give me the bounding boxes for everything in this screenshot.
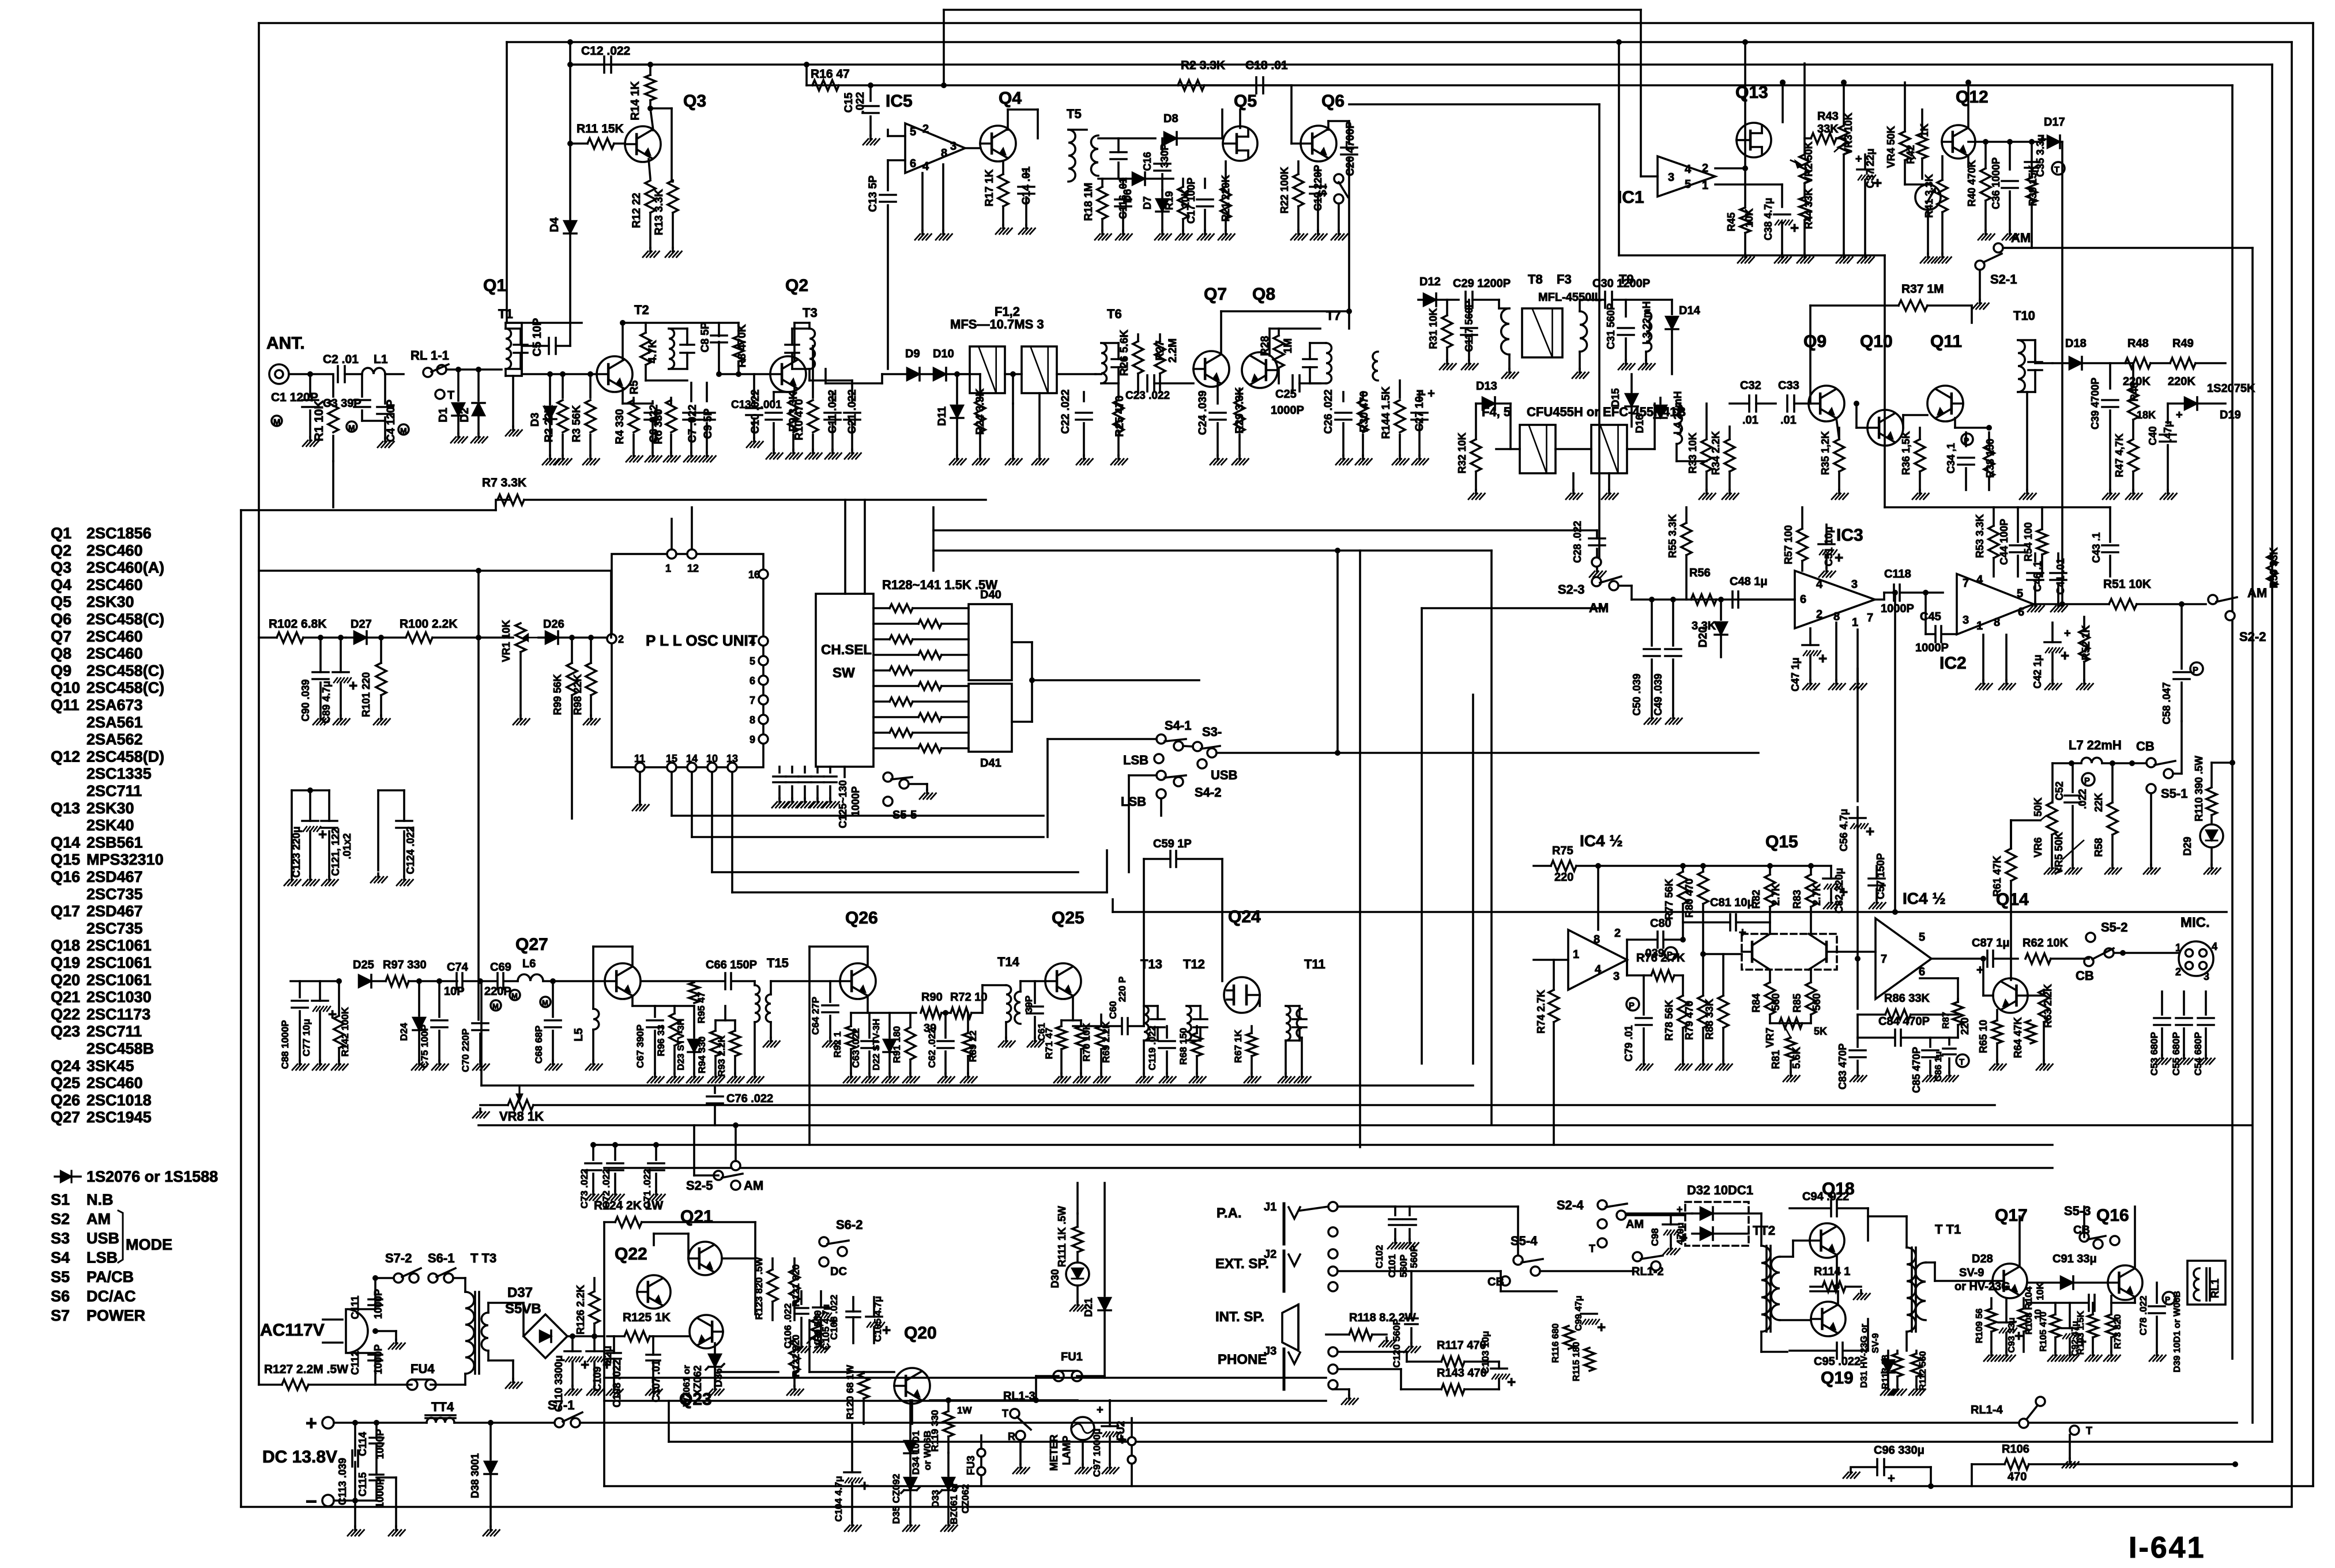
wire IC5 inputs xyxy=(888,135,905,137)
svg-text:D33: D33 xyxy=(930,1490,941,1507)
svg-text:D37: D37 xyxy=(507,1285,533,1301)
wire D32 input xyxy=(1626,1214,1685,1216)
svg-text:6: 6 xyxy=(2018,606,2024,619)
svg-text:D10: D10 xyxy=(933,348,954,360)
svg-text:14: 14 xyxy=(686,753,698,764)
wire tx row feed xyxy=(291,980,339,982)
svg-text:S5-4: S5-4 xyxy=(1511,1234,1538,1248)
svg-text:M: M xyxy=(400,426,407,435)
resistor R32 10K xyxy=(1471,439,1481,472)
svg-text:D27: D27 xyxy=(351,618,372,631)
svg-text:C7 .022: C7 .022 xyxy=(687,405,699,443)
capacitor C108 .022 xyxy=(607,1352,621,1354)
svg-text:2SC458(C): 2SC458(C) xyxy=(86,662,164,679)
wire Q26 collector xyxy=(867,947,869,967)
svg-text:RL1: RL1 xyxy=(2209,1279,2221,1298)
svg-text:DC 13.8V: DC 13.8V xyxy=(262,1448,337,1467)
inductor L5 xyxy=(592,947,594,1009)
svg-text:R54 100: R54 100 xyxy=(2023,522,2034,561)
svg-text:C94 .022: C94 .022 xyxy=(1802,1190,1849,1203)
svg-text:C98: C98 xyxy=(1649,1228,1660,1246)
svg-text:R5: R5 xyxy=(628,380,641,394)
svg-text:2SD467: 2SD467 xyxy=(86,903,143,920)
svg-text:10K: 10K xyxy=(1743,208,1755,227)
diode D33 BZ061 or CZ062 xyxy=(947,1453,950,1476)
capacitor C17 100P xyxy=(1197,198,1213,201)
svg-text:560: 560 xyxy=(1811,993,1822,1011)
svg-text:C119 .022: C119 .022 xyxy=(1147,1026,1158,1071)
wire CH.SEL feed verticals xyxy=(844,500,846,594)
capacitor C44 100P xyxy=(2017,507,2019,542)
wire Q19 emitter row xyxy=(1837,1291,1839,1305)
svg-text:M: M xyxy=(492,1002,499,1011)
svg-text:10: 10 xyxy=(706,753,718,764)
wire Q15 out to IC4b xyxy=(1837,951,1875,953)
resistor R123 820 .5W xyxy=(767,1269,778,1302)
svg-text:R112 560: R112 560 xyxy=(1918,1351,1928,1391)
svg-text:CB: CB xyxy=(2076,968,2094,983)
ground C113 xyxy=(354,1526,356,1530)
svg-text:5: 5 xyxy=(1919,931,1925,944)
svg-text:8: 8 xyxy=(1833,610,1840,623)
capacitor C106 .022 xyxy=(846,1310,860,1313)
svg-text:R18 1M: R18 1M xyxy=(1083,183,1095,221)
svg-text:Q16: Q16 xyxy=(2096,1206,2129,1225)
capacitor C51 10u xyxy=(1818,543,1835,545)
diode D21 xyxy=(1104,1183,1106,1296)
svg-text:C76 .022: C76 .022 xyxy=(726,1092,773,1105)
PLL pin 9 xyxy=(759,734,768,744)
svg-text:11: 11 xyxy=(634,753,645,764)
wire bottom bus y2501 xyxy=(669,1441,2272,1443)
resistor R64 47K xyxy=(2025,1020,2036,1043)
svg-text:D12: D12 xyxy=(1419,276,1441,288)
svg-text:R47 4,7K: R47 4,7K xyxy=(2114,434,2125,477)
resistor R46 18K xyxy=(2128,387,2138,420)
capacitor C88 1000P xyxy=(299,981,301,997)
svg-text:VR4 50K: VR4 50K xyxy=(1885,126,1897,168)
wire vertical x2466 xyxy=(1421,608,1423,1064)
svg-text:DC: DC xyxy=(830,1265,847,1278)
wire IC1 pin2 net xyxy=(1715,167,1745,169)
svg-text:SV-9: SV-9 xyxy=(1959,1267,1984,1279)
capacitor C123 220u xyxy=(292,789,329,791)
svg-text:J1: J1 xyxy=(1264,1201,1276,1213)
capacitor C28 .022 xyxy=(1589,537,1605,540)
svg-text:.01: .01 xyxy=(1780,414,1797,427)
svg-text:C18 .01: C18 .01 xyxy=(1245,59,1288,72)
PLL pin 1 xyxy=(667,549,676,559)
svg-text:1000P: 1000P xyxy=(374,1478,386,1508)
svg-text:R95 47: R95 47 xyxy=(696,992,707,1024)
svg-text:Q24: Q24 xyxy=(1228,907,1261,926)
resistor R29 3.3K xyxy=(1234,400,1245,432)
capacitor C19 220P xyxy=(1310,186,1326,188)
wire Q4 collector xyxy=(1007,110,1009,130)
svg-text:C93 33μ: C93 33μ xyxy=(2007,1317,2017,1352)
capacitor C62 .022 xyxy=(944,1013,947,1038)
svg-text:R89 22: R89 22 xyxy=(967,1031,978,1062)
svg-text:LAMP: LAMP xyxy=(1061,1436,1072,1465)
wire PLL pins top xyxy=(671,519,673,549)
PLL pin 5 xyxy=(759,656,768,665)
resistor R31 10K xyxy=(1442,315,1452,348)
wire IC4b out xyxy=(1931,958,1983,960)
svg-text:2SC711: 2SC711 xyxy=(86,1023,142,1040)
svg-text:R88 33K: R88 33K xyxy=(1704,998,1715,1039)
resistor R35 1.2K xyxy=(1834,439,1844,472)
svg-text:R33 10K: R33 10K xyxy=(1687,432,1698,473)
svg-text:C10 .022: C10 .022 xyxy=(750,389,762,434)
svg-text:2.7K: 2.7K xyxy=(1811,884,1822,906)
wire bottom bus y2430 xyxy=(604,1400,1326,1402)
svg-text:R99 56K: R99 56K xyxy=(552,674,563,715)
wire DC minus xyxy=(334,1499,376,1502)
svg-text:R77 56K: R77 56K xyxy=(1663,879,1675,919)
wire bridge out xyxy=(567,1335,604,1337)
wire PLL pin15 route xyxy=(671,772,673,816)
diode D4 xyxy=(564,221,577,233)
svg-text:+: + xyxy=(306,1412,317,1434)
wire Q13 drain to bus xyxy=(1782,82,1784,122)
diode D24 xyxy=(418,981,420,1016)
svg-text:R42: R42 xyxy=(1905,145,1916,164)
svg-text:C9 5P: C9 5P xyxy=(702,408,714,439)
svg-text:C101: C101 xyxy=(1387,1254,1398,1278)
svg-text:Q14: Q14 xyxy=(51,834,80,851)
capacitor C31 560P xyxy=(1618,327,1634,329)
capacitor C26 .022 xyxy=(1335,412,1351,414)
svg-text:R75: R75 xyxy=(1552,845,1573,857)
svg-text:4: 4 xyxy=(1685,163,1692,176)
svg-text:T T1: T T1 xyxy=(1935,1222,1961,1237)
svg-text:2SA561: 2SA561 xyxy=(86,714,143,731)
svg-text:1: 1 xyxy=(1852,616,1858,629)
svg-text:R85: R85 xyxy=(1791,993,1803,1012)
PLL pin 10 xyxy=(707,763,717,772)
svg-text:Q8: Q8 xyxy=(51,645,71,662)
svg-text:1000P: 1000P xyxy=(374,1429,386,1459)
capacitor C12 .022 xyxy=(603,56,605,73)
svg-text:LSB: LSB xyxy=(1123,753,1148,767)
capacitor C34 .1 P xyxy=(1958,457,1974,459)
diode D9 xyxy=(907,368,920,380)
svg-text:D21: D21 xyxy=(1083,1298,1094,1317)
svg-text:C1 120P: C1 120P xyxy=(271,391,318,404)
capacitor C68 68P xyxy=(552,981,554,1017)
svg-text:1: 1 xyxy=(2175,942,2181,953)
svg-text:D7: D7 xyxy=(1142,196,1153,209)
svg-text:C78 .022: C78 .022 xyxy=(2138,1296,2149,1336)
wire vertical x2555 xyxy=(1472,695,1474,1064)
svg-text:C75 100P: C75 100P xyxy=(419,1024,430,1068)
capacitor C105 4.7u xyxy=(813,1306,829,1309)
svg-text:R100 2.2K: R100 2.2K xyxy=(400,617,457,631)
svg-text:C87 1μ: C87 1μ xyxy=(1972,937,2010,949)
resistor R13 3.3K xyxy=(668,180,678,213)
svg-text:C121, 122: C121, 122 xyxy=(330,828,341,876)
svg-text:R127 2.2M .5W: R127 2.2M .5W xyxy=(264,1363,348,1376)
svg-text:2: 2 xyxy=(1702,162,1708,175)
svg-text:C33: C33 xyxy=(1778,379,1799,392)
svg-text:C86 1μ: C86 1μ xyxy=(1934,1051,1944,1081)
svg-text:S5-2: S5-2 xyxy=(2101,920,2127,934)
svg-text:R103 1.5K: R103 1.5K xyxy=(2076,1310,2086,1355)
wire LSB S4-2 down xyxy=(1160,798,1162,816)
svg-text:C69: C69 xyxy=(490,961,511,974)
diode D3 xyxy=(549,374,551,405)
svg-text:C32: C32 xyxy=(1740,379,1761,392)
wire Q20 collector xyxy=(911,1400,913,1424)
capacitors C102 C101 560P xyxy=(1338,1205,1395,1208)
resistor R93 2.2K xyxy=(730,1031,740,1056)
svg-text:R76 2.7K: R76 2.7K xyxy=(1636,952,1685,964)
wire RL1-1 to T1 xyxy=(446,368,502,371)
svg-text:R87: R87 xyxy=(1941,1012,1951,1028)
svg-text:+: + xyxy=(1790,219,1799,236)
switch S5-2 xyxy=(2086,933,2095,942)
box D41 xyxy=(969,684,1012,752)
capacitor C37 22u xyxy=(1857,168,1873,171)
capacitor C119 .022 xyxy=(1166,1026,1168,1038)
wire IC4b feedback R86 xyxy=(1856,959,1859,1009)
svg-text:R17 1K: R17 1K xyxy=(984,169,996,207)
capacitor C85 470P xyxy=(1929,1038,1931,1047)
wire PLL pin10 route xyxy=(711,772,713,872)
svg-text:Q13: Q13 xyxy=(1735,83,1768,102)
inductor L3 22mH xyxy=(1646,311,1651,352)
capacitor C39 4700P xyxy=(2102,399,2118,401)
svg-text:3: 3 xyxy=(1613,970,1620,983)
resistor R73 820 xyxy=(2106,1314,2116,1337)
svg-text:R6 330: R6 330 xyxy=(653,409,665,444)
svg-text:.022: .022 xyxy=(854,92,867,114)
wire Q2 collector to T3 xyxy=(793,323,796,360)
svg-text:AM: AM xyxy=(2011,231,2031,245)
svg-text:R32 10K: R32 10K xyxy=(1456,432,1468,473)
resistor R17 1K xyxy=(998,174,1008,206)
resistor R42 1K xyxy=(1917,133,1927,159)
svg-text:2SD467: 2SD467 xyxy=(86,868,143,885)
svg-text:2: 2 xyxy=(1614,927,1621,940)
svg-text:2SC1945: 2SC1945 xyxy=(86,1109,152,1126)
wire TT2 primary bottom xyxy=(1760,1332,1762,1352)
ground under C1 xyxy=(309,437,311,440)
wire bottom buses right xyxy=(603,1378,605,1486)
resistors R116 R115 C99 xyxy=(1564,1326,1574,1349)
capacitor C104 4.7u xyxy=(844,1471,860,1473)
resistor R1 10K xyxy=(332,374,334,397)
svg-text:Q20: Q20 xyxy=(51,971,80,989)
wire S2-3 to IC3 xyxy=(1618,585,1632,587)
capacitor C115 1000P xyxy=(370,1473,383,1476)
potentiometer VR7 5K xyxy=(1770,1022,1811,1024)
svg-text:C105 4.7μ: C105 4.7μ xyxy=(872,1296,883,1341)
svg-text:D35 CZ092: D35 CZ092 xyxy=(891,1474,902,1524)
svg-text:+: + xyxy=(882,1321,891,1339)
node LSB S4-1 xyxy=(1154,754,1163,763)
wire plug to node xyxy=(348,1308,375,1310)
svg-text:PHONE: PHONE xyxy=(1218,1352,1267,1367)
capacitor C90 .039 xyxy=(312,671,329,673)
wire CB to C58 net xyxy=(2173,772,2182,775)
svg-text:D41: D41 xyxy=(980,757,1001,770)
wire S4-1 bus right xyxy=(1335,750,1340,756)
wire T3 secondary to mixer diodes xyxy=(824,369,827,383)
svg-text:R117 470: R117 470 xyxy=(1437,1339,1486,1352)
svg-text:R27: R27 xyxy=(1154,341,1166,361)
svg-text:R43: R43 xyxy=(1817,110,1839,123)
svg-text:.01: .01 xyxy=(1742,414,1758,427)
svg-text:C108 .022: C108 .022 xyxy=(611,1359,623,1407)
resistor R96 33 xyxy=(669,1013,680,1046)
PLL pin 11 xyxy=(635,763,645,772)
svg-text:D2: D2 xyxy=(458,408,471,423)
svg-text:D16: D16 xyxy=(1634,414,1645,433)
bridge rectifier D37 xyxy=(524,1314,567,1358)
capacitor C70 220P xyxy=(472,1022,488,1024)
svg-text:1000P: 1000P xyxy=(372,1344,384,1374)
wire TT1 primary bottom xyxy=(1905,1332,1908,1351)
svg-text:AM: AM xyxy=(1626,1218,1644,1231)
svg-text:IC4 ½: IC4 ½ xyxy=(1903,889,1946,907)
svg-text:D11: D11 xyxy=(936,406,948,426)
diode D14 xyxy=(1671,300,1673,314)
svg-text:C105 4.7μ: C105 4.7μ xyxy=(820,1304,831,1350)
node T test xyxy=(435,390,445,399)
wire T10 top to D18 xyxy=(2034,343,2036,363)
resistor R12 22 xyxy=(649,159,650,179)
svg-text:15: 15 xyxy=(666,753,677,764)
wire Q1 emitter cluster xyxy=(622,389,624,404)
wire vertical x1619 xyxy=(932,507,935,571)
svg-text:2: 2 xyxy=(922,123,929,135)
wire bus C top xyxy=(570,63,2272,66)
svg-text:+: + xyxy=(1597,1318,1606,1336)
svg-text:4: 4 xyxy=(1976,574,1983,586)
svg-text:T11: T11 xyxy=(1304,957,1325,971)
svg-text:R11 15K: R11 15K xyxy=(577,122,624,135)
capacitor C78 .022 P xyxy=(2156,1283,2158,1303)
wire y1582 long xyxy=(1113,911,2227,913)
svg-text:D19: D19 xyxy=(2220,409,2241,421)
svg-text:R21 220K: R21 220K xyxy=(1220,175,1231,221)
svg-text:MIC.: MIC. xyxy=(2180,915,2210,930)
diode D8 xyxy=(1164,132,1177,145)
potentiometer VR3 10K xyxy=(1839,126,1849,154)
svg-text:R90: R90 xyxy=(921,991,943,1004)
wire bus D right drop xyxy=(2231,85,2234,1359)
wire bus B right drop xyxy=(2291,42,2293,1506)
svg-text:C58 .047: C58 .047 xyxy=(2161,682,2172,724)
svg-text:Q17: Q17 xyxy=(51,903,80,920)
svg-text:+: + xyxy=(1818,650,1827,667)
svg-text:R73 820: R73 820 xyxy=(2113,1314,2123,1350)
svg-text:Q6: Q6 xyxy=(51,610,71,628)
svg-text:C70 220P: C70 220P xyxy=(460,1028,471,1072)
wire Q1 emitter to R4/C6 xyxy=(623,402,653,405)
svg-text:7: 7 xyxy=(1867,612,1873,624)
svg-text:C53 680P: C53 680P xyxy=(2149,1032,2160,1076)
svg-text:2SC735: 2SC735 xyxy=(86,919,143,937)
node T RL1-4 xyxy=(2070,1426,2079,1435)
diode D17 xyxy=(2047,135,2060,148)
svg-text:M: M xyxy=(273,417,281,427)
svg-text:Q19: Q19 xyxy=(51,954,80,971)
svg-text:D13: D13 xyxy=(1476,380,1497,393)
svg-text:13: 13 xyxy=(726,753,738,764)
wire TT2 secondary to Q18 base xyxy=(1780,1256,1793,1258)
svg-text:8: 8 xyxy=(1994,616,2000,629)
svg-text:C124 .022: C124 .022 xyxy=(405,826,416,874)
svg-text:1000P: 1000P xyxy=(1271,404,1304,417)
svg-text:Q3: Q3 xyxy=(51,559,71,576)
svg-text:2SK40: 2SK40 xyxy=(86,817,134,834)
wire IC1 pin3 feed xyxy=(1641,175,1658,178)
svg-text:R50 33K: R50 33K xyxy=(2268,547,2280,588)
capacitor C124 .022 xyxy=(378,789,404,791)
svg-text:C63 .022: C63 .022 xyxy=(850,1028,861,1068)
svg-text:1000P: 1000P xyxy=(850,786,861,816)
svg-text:Q25: Q25 xyxy=(1052,909,1084,928)
wire T1 top to Q1 xyxy=(504,323,507,329)
svg-text:7: 7 xyxy=(1963,577,1969,590)
wire pin2 up xyxy=(610,571,612,638)
svg-text:9: 9 xyxy=(750,734,755,745)
svg-text:330P: 330P xyxy=(1159,144,1170,168)
resistor R47 4.7K xyxy=(2128,439,2138,472)
svg-text:Q10: Q10 xyxy=(51,679,80,696)
svg-text:6: 6 xyxy=(910,157,916,170)
svg-text:R56: R56 xyxy=(1689,567,1711,579)
svg-text:R57 100: R57 100 xyxy=(1783,525,1794,564)
capacitor C49 .039 xyxy=(1672,600,1674,646)
svg-text:T6: T6 xyxy=(1107,307,1122,321)
svg-text:LSB: LSB xyxy=(86,1249,118,1267)
svg-text:1000P: 1000P xyxy=(1881,602,1914,615)
svg-text:R45: R45 xyxy=(1726,212,1737,231)
wire S4-1 feed xyxy=(1048,738,1157,740)
svg-text:C45: C45 xyxy=(1920,610,1941,623)
wire IC1 pin1 net xyxy=(1715,183,1782,186)
svg-text:C44 100P: C44 100P xyxy=(1998,519,2010,565)
resistor R67 1K xyxy=(1246,1033,1257,1056)
svg-text:C4 120P: C4 120P xyxy=(385,399,397,442)
svg-text:R144 1.5K: R144 1.5K xyxy=(1380,386,1392,439)
capacitor C110 3300u xyxy=(564,1350,581,1352)
resistor R52 1K xyxy=(2079,630,2089,662)
capacitor C67 390P xyxy=(654,1006,656,1017)
resistor R4 330 xyxy=(632,398,635,404)
diode D35 CZ092 xyxy=(909,1453,912,1476)
capacitor C107 .01 xyxy=(646,1354,660,1356)
svg-text:220 P: 220 P xyxy=(1117,977,1128,1002)
svg-text:D38 3001: D38 3001 xyxy=(469,1453,481,1498)
svg-text:C66 150P: C66 150P xyxy=(706,959,757,971)
svg-text:C117 560P: C117 560P xyxy=(1463,300,1475,352)
resistor R126 2.2K xyxy=(589,1291,600,1324)
svg-text:C28 .022: C28 .022 xyxy=(1572,521,1583,563)
svg-text:CH.SEL: CH.SEL xyxy=(821,642,872,658)
svg-text:T15: T15 xyxy=(767,956,789,970)
capacitor C106 .022 xyxy=(800,1291,803,1304)
svg-text:Q23: Q23 xyxy=(679,1390,712,1409)
potentiometer VR1 10K xyxy=(515,623,526,652)
svg-text:N.B: N.B xyxy=(86,1191,114,1208)
svg-text:D1: D1 xyxy=(437,408,450,423)
capacitor C89 4.7u xyxy=(333,671,349,673)
svg-text:T8: T8 xyxy=(1528,272,1543,287)
